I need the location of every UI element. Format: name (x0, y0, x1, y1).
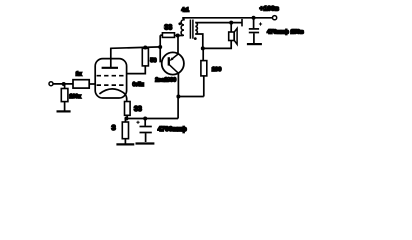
wire R33 right lead (175, 35, 178, 37)
resistor 100к (61, 89, 68, 102)
svg-text:33: 33 (164, 25, 172, 32)
svg-text:100: 100 (212, 67, 222, 73)
node speaker top (229, 21, 233, 25)
resistor 1к (73, 80, 89, 88)
resistor 56 (142, 48, 148, 66)
svg-text:1к: 1к (76, 71, 82, 77)
node anode/R56 (143, 46, 147, 50)
wire cathode net (126, 118, 178, 120)
svg-text:2sa1930: 2sa1930 (155, 78, 176, 84)
phase dot secondary (194, 37, 197, 40)
wire R100 top (202, 48, 204, 60)
wire emitter riser (177, 36, 179, 55)
input terminal (49, 82, 53, 86)
resistor 33 top (162, 33, 174, 38)
wire R33c bottom (126, 115, 128, 118)
svg-text:4700мкф: 4700мкф (158, 126, 187, 133)
wire riser to R33 (159, 35, 161, 47)
node cap 4700 (143, 117, 147, 121)
node cathode net (124, 117, 128, 121)
wire collector to cathode net (177, 97, 179, 119)
ground under R3 (116, 143, 134, 145)
tube control grid (dashed) (97, 84, 124, 86)
ground under 100к (57, 110, 71, 112)
svg-text:+100в: +100в (260, 5, 280, 12)
tube 6э5п envelope (95, 59, 126, 98)
wire top rail (182, 17, 272, 19)
transistor 2sa1930 (162, 52, 184, 74)
wire R56 bottom (127, 66, 146, 74)
svg-text:100к: 100к (69, 94, 81, 100)
tube cathode lead (126, 98, 128, 102)
wire R3 bottom (124, 139, 126, 144)
svg-text:6э5п: 6э5п (133, 82, 144, 88)
wire 1к to grid (89, 83, 95, 85)
node +100в rail/cap (252, 16, 256, 20)
node R33/primary/emitter (176, 34, 180, 38)
node anode/R33/base (158, 45, 162, 49)
wire riser to base (160, 47, 169, 62)
ground under 470мкф (247, 43, 262, 45)
resistor 100к lead top (64, 84, 66, 89)
transformer primary (181, 18, 184, 36)
wire secondary bottom (195, 34, 203, 48)
capacitor 4700мкф (144, 119, 146, 126)
svg-text:33: 33 (134, 106, 142, 113)
wire speaker top lead (230, 23, 232, 32)
svg-text:4:1: 4:1 (182, 7, 190, 13)
capacitor 470мкф (253, 18, 255, 29)
wire collector to R100 (178, 96, 203, 98)
plus mark (136, 121, 139, 124)
wire R33 left lead (160, 34, 162, 36)
terminal bar (241, 19, 243, 27)
ground under 4700мкф (136, 142, 155, 144)
tube anode bar (102, 67, 118, 69)
node input junction (62, 82, 66, 86)
svg-text:3: 3 (112, 123, 116, 132)
wire secondary top (195, 22, 242, 24)
speaker (229, 32, 234, 41)
wire R100 bottom riser (203, 76, 205, 97)
tube cathode arc (99, 89, 126, 98)
node secondary/R100/speaker (201, 46, 205, 50)
svg-text:56: 56 (150, 58, 156, 64)
plus mark (259, 22, 262, 25)
wire speaker bottom (203, 41, 231, 49)
node collector (176, 95, 180, 99)
resistor 100 (201, 61, 207, 76)
transformer secondary (195, 23, 197, 34)
terminal +100в (273, 16, 277, 20)
phase dot primary (178, 22, 181, 25)
wire collector down (177, 73, 179, 96)
svg-text:470мкф 150в: 470мкф 150в (267, 28, 304, 35)
anode wire (111, 47, 160, 48)
tube anode lead (110, 48, 112, 68)
resistor 33 cathode (125, 102, 131, 116)
tube screen grid (dashed) (97, 75, 124, 77)
transformer core (189, 20, 191, 39)
wire to primary bottom (178, 35, 184, 37)
resistor 3 (124, 119, 126, 123)
wire input to R1k (53, 83, 73, 85)
wire 100к to ground (64, 102, 66, 111)
